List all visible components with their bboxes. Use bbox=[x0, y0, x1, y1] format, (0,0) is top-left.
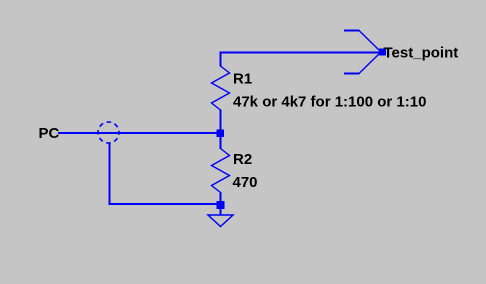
wire: top horizontal from R1 to test point bbox=[220, 51, 383, 53]
label: R2 reference bbox=[233, 151, 252, 168]
svg-text:R2: R2 bbox=[233, 151, 252, 168]
wire: PC to divider node bbox=[58, 132, 217, 134]
svg-text:470: 470 bbox=[233, 174, 258, 191]
wire: vertical branch from probe circle down bbox=[109, 143, 111, 205]
node: PC probe dashed circle bbox=[98, 122, 119, 143]
svg-text:R1: R1 bbox=[233, 71, 252, 88]
node: test point pin square bbox=[379, 49, 386, 56]
connector test point symbol: lower diagonal bbox=[359, 52, 381, 74]
svg-text:Test_point: Test_point bbox=[384, 45, 459, 62]
wire: vertical lead top wire to R1 bbox=[220, 51, 222, 66]
svg-text:PC: PC bbox=[39, 125, 60, 142]
connector test point symbol: upper stub bbox=[344, 30, 360, 32]
node: ground junction square bbox=[217, 201, 225, 209]
wire: lead divider node to R2 bbox=[220, 137, 222, 150]
label: R1 value 47k or 4k7 for 1:100 or 1:10 bbox=[233, 94, 426, 111]
ground bbox=[208, 215, 233, 227]
connector test point symbol: lower stub bbox=[344, 73, 360, 75]
wire: lead R1 bottom to divider node bbox=[220, 110, 222, 131]
label: net Test_point bbox=[384, 45, 459, 62]
connector test point symbol: upper diagonal bbox=[359, 31, 381, 53]
node: divider junction square bbox=[217, 130, 225, 138]
wire: lead R2 bottom to ground node bbox=[220, 192, 222, 202]
svg-text:47k or 4k7 for 1:100 or 1:10: 47k or 4k7 for 1:100 or 1:10 bbox=[233, 94, 426, 111]
resistor R1 bbox=[212, 66, 230, 110]
resistor R2 bbox=[212, 149, 230, 193]
wire: lead ground node to ground symbol bbox=[220, 209, 222, 216]
label: R2 value 470 bbox=[233, 174, 258, 191]
label: R1 reference bbox=[233, 71, 252, 88]
wire: bottom horizontal to ground node bbox=[109, 203, 217, 205]
label: net PC bbox=[39, 125, 60, 142]
